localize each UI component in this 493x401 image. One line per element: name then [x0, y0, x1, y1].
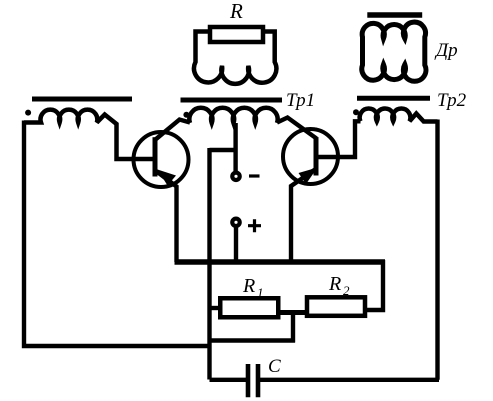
resistor R1 box [220, 298, 278, 317]
svg-text:R: R [229, 0, 243, 23]
wire plus terminal to emitter bus [234, 227, 238, 262]
wire branch to long vertical [210, 148, 236, 152]
base winding left (3.5 humps) with wire to Q1 base [24, 110, 153, 159]
wire Q1 collector to Tp1 left end [156, 120, 191, 140]
wire horizontal to long vertical (line A) [208, 338, 295, 342]
svg-text:R: R [242, 275, 255, 297]
minus terminal [230, 171, 242, 183]
wire capacitor right lead [260, 378, 439, 382]
wire R1 right to R2 left [279, 310, 306, 315]
winding Tp2 (3.5 humps) [360, 109, 438, 122]
wire capacitor left lead [210, 378, 247, 382]
collector winding Tp1 (4 humps) [189, 108, 277, 123]
transistor Q1 base bar [153, 137, 158, 176]
svg-text:C: C [268, 356, 281, 377]
wire Q2 base to Tp2 winding [318, 121, 361, 157]
svg-text:Тр2: Тр2 [437, 90, 467, 111]
phase dot Tp2 [353, 109, 359, 115]
transistor Q2 emitter arrow (PNP) [299, 168, 318, 185]
transistor Q1 emitter arrow (PNP) [158, 170, 177, 186]
phase dot Tp1 [183, 112, 189, 118]
choke Dr core bar [367, 12, 422, 18]
svg-text:Тр1: Тр1 [286, 90, 315, 111]
choke Dr winding body [362, 22, 426, 81]
svg-text:Др: Др [434, 40, 458, 61]
transistor Q2 emitter wire [291, 169, 316, 262]
transformer Tp1 core bar [181, 98, 283, 103]
capacitor C plates [248, 364, 258, 397]
wire long vertical (bias / C branch) [207, 148, 211, 380]
transistor Q1 emitter wire [156, 171, 177, 262]
wire Tp2 right end down right side [435, 120, 439, 380]
transformer left core bar [32, 97, 132, 102]
plus sign [248, 219, 261, 232]
wire Tp1 center tap down to minus terminal [233, 123, 237, 172]
resistor R box [210, 27, 263, 42]
wire bus right end down to R2 [367, 260, 383, 310]
transistor Q2 base bar [314, 137, 319, 175]
plus terminal [230, 217, 242, 229]
resistor R2 box [307, 297, 365, 316]
minus sign [249, 174, 260, 177]
wire long vertical to R1 left [210, 306, 221, 310]
emitter bus wire [175, 259, 386, 265]
wire from R1-R2 junction down [291, 311, 295, 343]
svg-text:R: R [328, 273, 341, 295]
transformer Tp2 core bar [357, 96, 430, 101]
winding W3 (feedback winding above Tp1 core, with R across it) [194, 32, 276, 84]
wire left vertical down and bottom run [24, 121, 210, 347]
phase dot left winding [25, 110, 31, 116]
wire Q2 collector to Tp1 right end [277, 118, 317, 139]
transistor Q1 circle [134, 132, 189, 187]
transistor Q2 circle [283, 129, 338, 184]
